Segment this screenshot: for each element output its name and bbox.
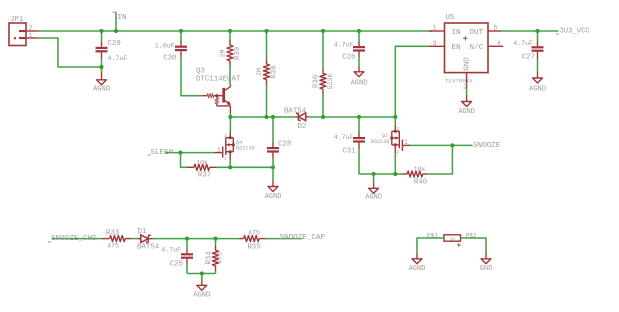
svg-text:10k: 10k bbox=[196, 160, 208, 167]
transistor Q3 DTC114EUAT bbox=[196, 68, 241, 114]
svg-text:GND: GND bbox=[480, 265, 493, 273]
svg-text:1.0uF: 1.0uF bbox=[155, 43, 175, 50]
wire EN net to Q2 drain column bbox=[395, 46, 429, 117]
junction mid bus at R36 bbox=[321, 115, 325, 119]
svg-text:TLV700XX: TLV700XX bbox=[445, 78, 473, 85]
svg-text:3: 3 bbox=[224, 133, 227, 139]
svg-text:1: 1 bbox=[433, 25, 437, 33]
junction mid bus at R38 bbox=[264, 115, 268, 119]
svg-text:R37: R37 bbox=[198, 172, 211, 180]
svg-text:R38: R38 bbox=[271, 65, 279, 78]
capacitor C30 bbox=[155, 31, 187, 63]
node IN label stub bbox=[115, 12, 117, 31]
wire Q2 source down bbox=[394, 145, 396, 153]
svg-text:AGND: AGND bbox=[265, 193, 282, 201]
wire R33 to D1 bbox=[131, 238, 141, 240]
svg-text:SNOOZE: SNOOZE bbox=[473, 142, 501, 150]
svg-text:EN: EN bbox=[452, 44, 461, 52]
junction C29 bottom bbox=[99, 65, 103, 69]
wire top bus VIN bbox=[38, 30, 433, 32]
ground AGND under C26 bbox=[351, 67, 368, 88]
ground AGND below bus bbox=[365, 174, 382, 201]
resistor R37 bbox=[187, 160, 217, 180]
connector JP1 bbox=[9, 16, 26, 46]
junction top bus at IN bbox=[114, 29, 118, 33]
svg-text:N/C: N/C bbox=[470, 44, 484, 52]
junction mid bus at C31 bbox=[357, 115, 361, 119]
wire JP1 pin1 to C29 bottom node bbox=[38, 38, 102, 67]
svg-text:4.7uF: 4.7uF bbox=[161, 247, 181, 254]
wire R35 to SNOOZE_CAP bbox=[267, 238, 303, 240]
svg-text:5: 5 bbox=[494, 25, 498, 33]
transistor Q4 BSS138 bbox=[214, 133, 255, 162]
svg-text:AGND: AGND bbox=[351, 80, 368, 88]
svg-text:475: 475 bbox=[216, 252, 223, 264]
svg-text:OUT: OUT bbox=[470, 29, 484, 37]
junction top bus at R38 bbox=[264, 29, 268, 33]
voltage regulator U5 TLV700 bbox=[445, 14, 489, 85]
svg-text:AGND: AGND bbox=[458, 108, 475, 116]
svg-text:1: 1 bbox=[404, 139, 408, 146]
wire OUT to 3U3_VCC bbox=[501, 30, 559, 32]
wire Q2 gate to SNOOZE bbox=[410, 144, 473, 146]
junction top bus at C29 bbox=[99, 29, 103, 33]
junction top bus at R36 bbox=[321, 29, 325, 33]
capacitor C25 bbox=[161, 239, 193, 274]
svg-text:AGND: AGND bbox=[529, 86, 546, 94]
svg-text:C31: C31 bbox=[342, 148, 356, 156]
svg-text:AGND: AGND bbox=[93, 86, 110, 94]
svg-text:2M: 2M bbox=[256, 68, 263, 76]
wire D1 to R35 bbox=[153, 238, 240, 240]
junction at R34 bbox=[213, 237, 217, 241]
wire mid bus right bbox=[309, 116, 396, 118]
svg-text:C25: C25 bbox=[170, 261, 183, 269]
junction mid bus at Q2 bbox=[393, 115, 397, 119]
svg-text:3U3_VCC: 3U3_VCC bbox=[560, 27, 591, 35]
wire mid bus left bbox=[230, 116, 296, 118]
wire SLEEP branch down to R37 bbox=[181, 153, 188, 168]
svg-text:AGND: AGND bbox=[193, 292, 210, 300]
svg-text:4.7uF: 4.7uF bbox=[334, 42, 354, 49]
svg-text:4.7uF: 4.7uF bbox=[334, 134, 354, 141]
svg-text:AGND: AGND bbox=[365, 193, 382, 201]
resistor R40 bbox=[402, 166, 428, 186]
svg-text:3: 3 bbox=[397, 126, 400, 132]
junction SNOOZE at R40 branch bbox=[450, 143, 454, 147]
capacitor C27 bbox=[513, 31, 543, 73]
junction top bus at C26 bbox=[357, 29, 361, 33]
svg-text:IN: IN bbox=[118, 14, 127, 22]
svg-text:4: 4 bbox=[497, 40, 501, 48]
junction top bus at C30 bbox=[179, 29, 183, 33]
svg-text:1: 1 bbox=[217, 147, 221, 154]
junction top bus at R39 bbox=[228, 29, 232, 33]
svg-text:R36: R36 bbox=[312, 75, 320, 88]
svg-text:GND: GND bbox=[464, 57, 472, 71]
svg-text:475: 475 bbox=[107, 243, 119, 250]
svg-text:4.7uF: 4.7uF bbox=[108, 55, 128, 62]
wire SLEEP to Q4 gate bbox=[165, 152, 214, 154]
svg-text:SLEEP: SLEEP bbox=[151, 149, 174, 157]
svg-text:R40: R40 bbox=[414, 178, 427, 186]
svg-text:R33: R33 bbox=[106, 230, 119, 238]
ground AGND under C27 bbox=[529, 73, 546, 94]
JP1 pin 1 stub bbox=[26, 37, 38, 39]
svg-text:Q2: Q2 bbox=[382, 133, 388, 139]
svg-text:BSS138: BSS138 bbox=[371, 139, 390, 145]
svg-text:C29: C29 bbox=[108, 40, 121, 48]
junction bottom at AGND bbox=[200, 271, 204, 275]
svg-text:R35: R35 bbox=[247, 244, 260, 252]
wire SNOOZE_CHG to R33 bbox=[52, 238, 102, 240]
junction R37 bus at Q4 source bbox=[228, 165, 232, 169]
junction at C25 bbox=[185, 237, 189, 241]
svg-text:C26: C26 bbox=[342, 54, 355, 62]
U5 pin 1 IN bbox=[429, 30, 445, 32]
svg-text:AGND: AGND bbox=[409, 265, 426, 273]
resistor R35 bbox=[239, 230, 267, 252]
U5 pin 4 N/C stub bbox=[488, 45, 503, 47]
junction R37 bus at C28 bbox=[271, 165, 275, 169]
svg-text:C30: C30 bbox=[163, 55, 176, 63]
svg-text:JP: JP bbox=[449, 236, 455, 242]
diode D2 BAT54 bbox=[284, 108, 309, 132]
diode D1 BAT54 bbox=[137, 228, 160, 252]
wire Q4 drain up to bus bbox=[229, 117, 231, 132]
resistor R39 bbox=[219, 31, 242, 84]
svg-text:SNOOZE_CAP: SNOOZE_CAP bbox=[280, 234, 326, 242]
wire C30 to Q3 base bbox=[181, 57, 203, 96]
resistor R36 bbox=[312, 31, 334, 117]
svg-text:1: 1 bbox=[29, 32, 33, 40]
svg-text:4.7uF: 4.7uF bbox=[513, 40, 533, 47]
U5 pin 3 EN bbox=[429, 45, 445, 47]
wire PB2 to GND bbox=[461, 238, 487, 254]
ground AGND under U5 bbox=[458, 102, 475, 116]
svg-text:Q3: Q3 bbox=[196, 68, 205, 76]
junction OUT at C27 bbox=[535, 29, 539, 33]
resistor R34 bbox=[206, 239, 224, 274]
transistor Q2 BSS138 bbox=[371, 126, 410, 155]
svg-text:523K: 523K bbox=[327, 74, 334, 90]
svg-text:R34: R34 bbox=[206, 251, 214, 265]
capacitor C26 bbox=[334, 31, 365, 67]
wire R40 up to SNOOZE bbox=[428, 145, 453, 174]
junction SLEEP at R37 branch bbox=[178, 151, 182, 155]
junction mid bus at C28 bbox=[271, 115, 275, 119]
JP1 pin 2 stub bbox=[26, 30, 38, 32]
wire PB1 to AGND bbox=[417, 238, 444, 254]
svg-text:BAT54: BAT54 bbox=[137, 244, 160, 252]
svg-text:SNOOZE_CHG: SNOOZE_CHG bbox=[51, 235, 97, 243]
svg-text:C27: C27 bbox=[522, 54, 535, 62]
U5 pin 2 GND bbox=[466, 73, 468, 88]
wire bottom bus C31 to R40 bbox=[359, 173, 402, 175]
resistor R38 bbox=[256, 31, 279, 117]
U5 pin 5 OUT bbox=[488, 30, 501, 32]
jumper PB1/PB2 bbox=[427, 233, 477, 247]
svg-text:10k: 10k bbox=[414, 166, 426, 173]
wire C25 to R34 bottom bbox=[187, 273, 216, 275]
ground AGND under C28 bbox=[265, 181, 282, 201]
svg-text:IN: IN bbox=[452, 29, 461, 37]
svg-text:U5: U5 bbox=[446, 14, 455, 22]
wire Q4 source down bbox=[229, 152, 231, 160]
svg-text:R39: R39 bbox=[234, 47, 242, 60]
svg-text:475: 475 bbox=[248, 230, 260, 237]
svg-text:2M: 2M bbox=[219, 50, 226, 58]
svg-text:BSS138: BSS138 bbox=[236, 146, 255, 152]
svg-text:2: 2 bbox=[397, 149, 400, 155]
svg-text:DTC114EUAT: DTC114EUAT bbox=[196, 76, 241, 84]
svg-text:C28: C28 bbox=[278, 141, 291, 149]
capacitor C28 bbox=[267, 117, 291, 181]
junction mid bus at Q3/Q4 bbox=[228, 115, 232, 119]
svg-text:2: 2 bbox=[224, 156, 227, 162]
junction bottom bus at AGND bbox=[372, 172, 376, 176]
wire Q3 emitter to bus bbox=[229, 113, 231, 117]
wire R37 to C28 bottom bbox=[217, 166, 274, 168]
svg-text:D2: D2 bbox=[298, 123, 307, 131]
svg-text:3: 3 bbox=[433, 40, 437, 48]
ground AGND under C29 bbox=[93, 72, 110, 94]
wire Q2 drain up to bus bbox=[394, 117, 396, 125]
resistor R33 bbox=[102, 230, 131, 250]
junction bottom bus at Q2 source bbox=[393, 172, 397, 176]
ground AGND bottom bbox=[193, 274, 210, 300]
capacitor C31 bbox=[334, 117, 365, 174]
ground GND under PB2 bbox=[480, 254, 493, 274]
capacitor C29 bbox=[96, 31, 128, 72]
ground AGND under PB1 bbox=[409, 254, 426, 274]
